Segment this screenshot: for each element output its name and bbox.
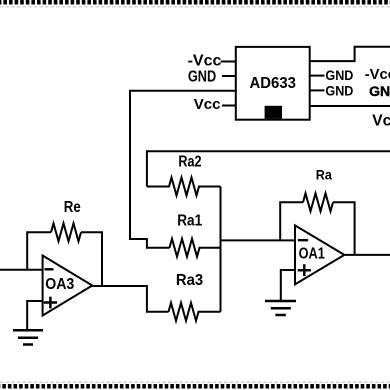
wire: AD633 left pin 4 stub — [222, 105, 236, 107]
wire: AD633 right pin 2 stub — [310, 75, 325, 77]
wire: AD633 left pin 2 stub — [222, 75, 236, 77]
wire: OA3 + input to ground — [27, 301, 42, 330]
wire: AD633 right pin 3 stub — [310, 89, 325, 91]
op-amp OA3 triangle — [43, 256, 93, 316]
svg-text:Ra: Ra — [316, 168, 332, 183]
svg-text:Ra2: Ra2 — [178, 154, 201, 171]
wire: OA1 feedback left vertical — [280, 202, 303, 240]
OA1 plus sign — [298, 264, 311, 276]
svg-text:AD633: AD633 — [250, 75, 296, 92]
svg-text:GND: GND — [369, 83, 390, 99]
wire: OA1 output to right edge — [344, 254, 390, 256]
wire: AD633 right pin 4 to right edge — [310, 105, 390, 107]
OA3 minus sign — [45, 268, 54, 270]
wire: OA1 + input to ground — [281, 270, 295, 300]
svg-text:GND: GND — [325, 84, 353, 99]
node line (summing node vertical) — [220, 187, 222, 312]
svg-text:Vcc: Vcc — [194, 96, 221, 113]
ground (OA1) — [265, 301, 296, 315]
top faint dashed line — [0, 6, 390, 8]
bottom faint dashed line — [0, 381, 390, 383]
svg-text:Ra1: Ra1 — [177, 212, 202, 229]
wire: AD633 right pin 1 step wire to right edge — [310, 47, 390, 61]
svg-text:OA3: OA3 — [45, 276, 74, 293]
wire: AD633 left pin 1 stub — [221, 61, 236, 63]
wire: long top net to right edge — [147, 151, 390, 186]
wire: OA3 feedback loop — [27, 232, 51, 269]
svg-text:GND: GND — [188, 68, 216, 85]
IC U1 notch (black tab, bottom center) — [265, 106, 282, 119]
OA1 minus sign — [298, 239, 308, 241]
wire: Re to output vertical — [81, 232, 102, 286]
top dashed border — [0, 0, 390, 4]
svg-text:GND: GND — [325, 68, 353, 83]
resistor Ra1 — [170, 239, 221, 257]
svg-text:Vcc: Vcc — [372, 113, 390, 130]
IC U1 AD633 body — [236, 47, 310, 120]
op-amp OA1 triangle — [295, 225, 344, 284]
svg-text:-Vcc: -Vcc — [188, 53, 222, 70]
resistor Re — [51, 223, 81, 241]
resistor Ra2 — [147, 178, 221, 196]
svg-text:-Vcc: -Vcc — [365, 67, 390, 83]
resistor Ra — [303, 193, 333, 211]
svg-text:Re: Re — [64, 199, 81, 216]
wire: OA3 inverting input from left edge — [0, 269, 43, 271]
wire: OA3 output to Ra3 — [92, 286, 168, 312]
ground (OA3) — [13, 330, 43, 344]
svg-text:OA1: OA1 — [299, 245, 325, 262]
resistor Ra3 — [169, 303, 221, 321]
svg-text:Ra3: Ra3 — [176, 272, 203, 289]
wire: AD633 left pin 3 to network — [130, 91, 236, 248]
bottom dashed border — [0, 384, 390, 389]
wire: Ra to OA1 output vertical — [333, 202, 355, 255]
wire: node to OA1 inverting input — [221, 239, 296, 241]
OA3 plus sign — [44, 297, 57, 309]
